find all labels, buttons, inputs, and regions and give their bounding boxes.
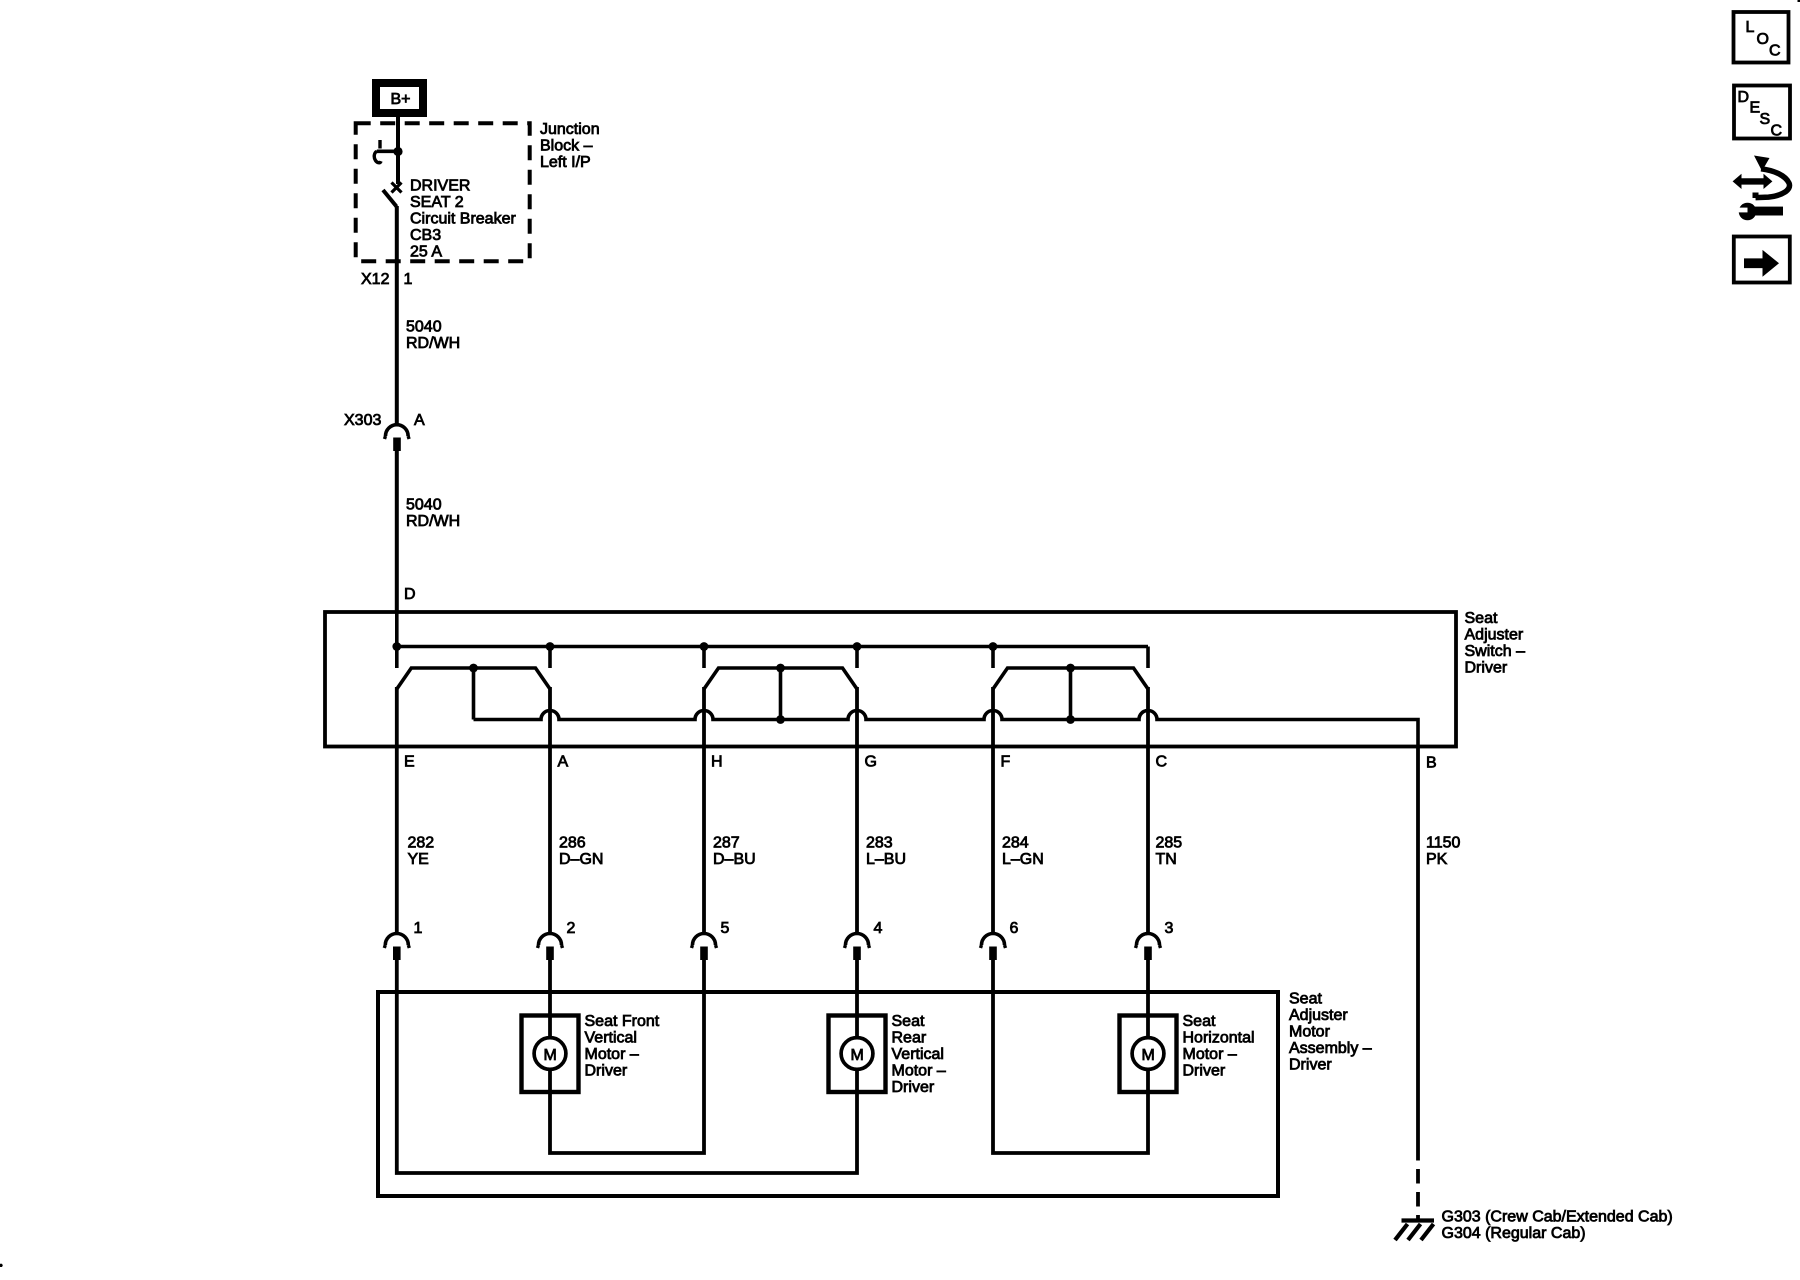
wire motor 2 to E — [397, 960, 857, 1173]
wire C to motor 3 — [1146, 960, 1150, 1038]
svg-text:H: H — [711, 754, 723, 771]
wire label 1150 PK — [1426, 835, 1461, 869]
inline connector pin 2 on wire A — [538, 920, 576, 960]
svg-text:25 A: 25 A — [410, 244, 442, 261]
motor M2 seat rear vertical — [829, 1016, 886, 1093]
svg-text:1150: 1150 — [1426, 835, 1461, 852]
svg-text:Motor –: Motor – — [892, 1063, 946, 1080]
label Seat Adjuster Motor Assembly - Driver — [1289, 991, 1372, 1074]
svg-text:284: 284 — [1002, 835, 1029, 852]
svg-text:SEAT 2: SEAT 2 — [410, 194, 464, 211]
svg-text:Assembly –: Assembly – — [1289, 1040, 1372, 1057]
svg-text:C: C — [1156, 754, 1168, 771]
svg-text:Driver: Driver — [1183, 1063, 1226, 1080]
power feed terminal B+ — [372, 79, 427, 117]
common return rail to pin B with wire hops — [474, 711, 1419, 747]
inline connector pin 5 on wire H — [692, 920, 730, 960]
bus stub F — [991, 647, 995, 669]
svg-text:6: 6 — [1010, 920, 1019, 937]
pin letters E A H G F C B — [404, 754, 1437, 772]
svg-text:X303: X303 — [344, 412, 381, 429]
svg-text:285: 285 — [1156, 835, 1183, 852]
svg-text:Motor –: Motor – — [585, 1046, 639, 1063]
svg-text:5: 5 — [721, 920, 730, 937]
svg-text:Junction: Junction — [540, 121, 600, 138]
svg-text:Circuit Breaker: Circuit Breaker — [410, 211, 516, 228]
svg-text:YE: YE — [408, 851, 429, 868]
motor M1 seat front vertical — [522, 1016, 579, 1093]
svg-text:TN: TN — [1156, 851, 1177, 868]
connector X12 pin 1 labels — [361, 271, 413, 288]
pin wire H — [702, 687, 706, 934]
svg-text:Horizontal: Horizontal — [1183, 1030, 1255, 1047]
svg-text:2: 2 — [567, 920, 576, 937]
label Seat Adjuster Switch - Driver — [1465, 610, 1526, 677]
label Seat Rear Vertical Motor - Driver — [892, 1013, 946, 1096]
seat adjuster switch box — [325, 612, 1456, 747]
svg-text:Left I/P: Left I/P — [540, 154, 591, 171]
svg-text:Adjuster: Adjuster — [1289, 1007, 1348, 1024]
svg-text:M: M — [1142, 1047, 1155, 1064]
junction block dashed box — [356, 123, 530, 261]
pin wire G — [855, 687, 859, 934]
svg-text:D: D — [404, 586, 416, 603]
svg-text:Driver: Driver — [1465, 660, 1508, 677]
svg-text:L–BU: L–BU — [866, 851, 906, 868]
svg-text:A: A — [414, 412, 425, 429]
inline connector pin 6 on wire F — [981, 920, 1019, 960]
svg-text:G: G — [865, 754, 877, 771]
svg-text:Seat: Seat — [1465, 610, 1498, 627]
wire 5040 RD/WH upper — [395, 261, 399, 425]
svg-text:5040: 5040 — [406, 497, 442, 514]
icon DESC box — [1734, 86, 1790, 140]
wire motor 3 to F — [993, 960, 1148, 1153]
wire A to motor 1 — [548, 960, 552, 1038]
ground G303/G304 — [1395, 1221, 1434, 1241]
svg-text:D: D — [1738, 89, 1750, 106]
svg-text:Vertical: Vertical — [892, 1046, 944, 1063]
svg-text:Seat: Seat — [892, 1013, 925, 1030]
svg-text:C: C — [1769, 43, 1781, 60]
svg-text:L: L — [1746, 19, 1755, 36]
wire label 287 D-BU — [713, 835, 756, 869]
svg-text:RD/WH: RD/WH — [406, 335, 460, 352]
svg-text:C: C — [1771, 123, 1783, 140]
svg-text:X12: X12 — [361, 271, 390, 288]
svg-text:Block –: Block – — [540, 138, 593, 155]
wire motor 1 to H — [550, 960, 704, 1153]
wire B+ down to junction block — [396, 117, 400, 125]
page mark bottom left — [0, 1264, 3, 1267]
svg-text:F: F — [1001, 754, 1011, 771]
inline connector pin 3 on wire C — [1136, 920, 1174, 960]
svg-text:5040: 5040 — [406, 319, 442, 336]
wire D into switch box — [395, 612, 399, 668]
svg-text:Driver: Driver — [892, 1079, 935, 1096]
svg-text:Seat Front: Seat Front — [585, 1013, 660, 1030]
svg-text:1: 1 — [414, 920, 423, 937]
labels G303 G304 — [1442, 1209, 1673, 1243]
label Seat Horizontal Motor - Driver — [1183, 1013, 1255, 1080]
svg-text:B: B — [1426, 755, 1437, 772]
svg-text:Motor: Motor — [1289, 1024, 1331, 1041]
svg-text:3: 3 — [1165, 920, 1174, 937]
icon LOC box — [1734, 12, 1789, 63]
svg-text:283: 283 — [866, 835, 893, 852]
svg-text:287: 287 — [713, 835, 740, 852]
bus stub H — [702, 647, 706, 669]
connector X303 pin A — [344, 412, 425, 451]
wire G to motor 2 — [855, 960, 859, 1038]
motor M3 seat horizontal — [1120, 1016, 1177, 1093]
wire label 282 YE — [408, 835, 435, 869]
page corner mark top right — [1798, 0, 1800, 2]
svg-text:L–GN: L–GN — [1002, 851, 1044, 868]
svg-text:Seat: Seat — [1289, 991, 1322, 1008]
svg-text:Seat: Seat — [1183, 1013, 1216, 1030]
svg-text:M: M — [851, 1047, 864, 1064]
wire label 285 TN — [1156, 835, 1183, 869]
svg-text:PK: PK — [1426, 851, 1448, 868]
pin wire F — [991, 687, 995, 934]
svg-text:B+: B+ — [391, 91, 411, 108]
inline connector pin 4 on wire G — [845, 920, 883, 960]
svg-text:282: 282 — [408, 835, 435, 852]
svg-text:M: M — [544, 1047, 557, 1064]
svg-text:Adjuster: Adjuster — [1465, 627, 1524, 644]
svg-text:4: 4 — [874, 920, 883, 937]
junction dots on bus — [392, 642, 401, 651]
svg-text:RD/WH: RD/WH — [406, 513, 460, 530]
seat adjuster motor assembly box — [378, 992, 1278, 1196]
svg-text:Rear: Rear — [892, 1030, 927, 1047]
label Junction Block - Left I/P — [540, 121, 600, 171]
svg-text:E: E — [404, 754, 415, 771]
svg-text:Switch –: Switch – — [1465, 643, 1526, 660]
wire 5040 RD/WH lower — [395, 451, 399, 613]
pin wire C — [1146, 687, 1150, 934]
svg-text:G304 (Regular Cab): G304 (Regular Cab) — [1442, 1225, 1586, 1242]
svg-text:Motor –: Motor – — [1183, 1046, 1237, 1063]
label DRIVER SEAT 2 Circuit Breaker CB3 25 A — [410, 178, 516, 261]
svg-text:O: O — [1757, 31, 1769, 48]
bus stub G — [855, 647, 859, 669]
svg-text:CB3: CB3 — [410, 227, 441, 244]
bus stub C — [1146, 647, 1150, 669]
svg-text:1: 1 — [404, 271, 413, 288]
wire label 283 L-BU — [866, 835, 906, 869]
label Seat Front Vertical Motor - Driver — [585, 1013, 660, 1080]
icon schematic reference arrows and wrench — [1733, 156, 1790, 221]
svg-text:G303 (Crew Cab/Extended Cab): G303 (Crew Cab/Extended Cab) — [1442, 1209, 1673, 1226]
wire B dashed section — [1416, 1161, 1420, 1220]
svg-text:286: 286 — [559, 835, 586, 852]
bus stub A — [548, 647, 552, 669]
wire label 284 L-GN — [1002, 835, 1044, 869]
svg-text:DRIVER: DRIVER — [410, 178, 470, 195]
icon forward arrow box — [1734, 237, 1790, 283]
switch 3 rocker F-C — [993, 664, 1148, 724]
inline connector pin 1 on wire E — [384, 920, 422, 960]
svg-text:S: S — [1760, 111, 1771, 128]
switch 2 rocker H-G — [704, 664, 857, 724]
svg-text:Vertical: Vertical — [585, 1030, 637, 1047]
svg-text:A: A — [558, 754, 569, 771]
wire B 1150 PK down — [1416, 747, 1420, 1161]
svg-text:Driver: Driver — [585, 1063, 628, 1080]
circuit breaker CB3 25A — [374, 123, 402, 261]
pin wire E — [395, 687, 399, 934]
switch 1 rocker E-A — [397, 664, 550, 720]
svg-text:D–GN: D–GN — [559, 851, 603, 868]
wire label 286 D-GN — [559, 835, 603, 869]
bus wire B+ inside switch — [397, 645, 1148, 649]
pin wire A — [548, 687, 552, 934]
svg-text:Driver: Driver — [1289, 1057, 1332, 1074]
svg-text:D–BU: D–BU — [713, 851, 756, 868]
